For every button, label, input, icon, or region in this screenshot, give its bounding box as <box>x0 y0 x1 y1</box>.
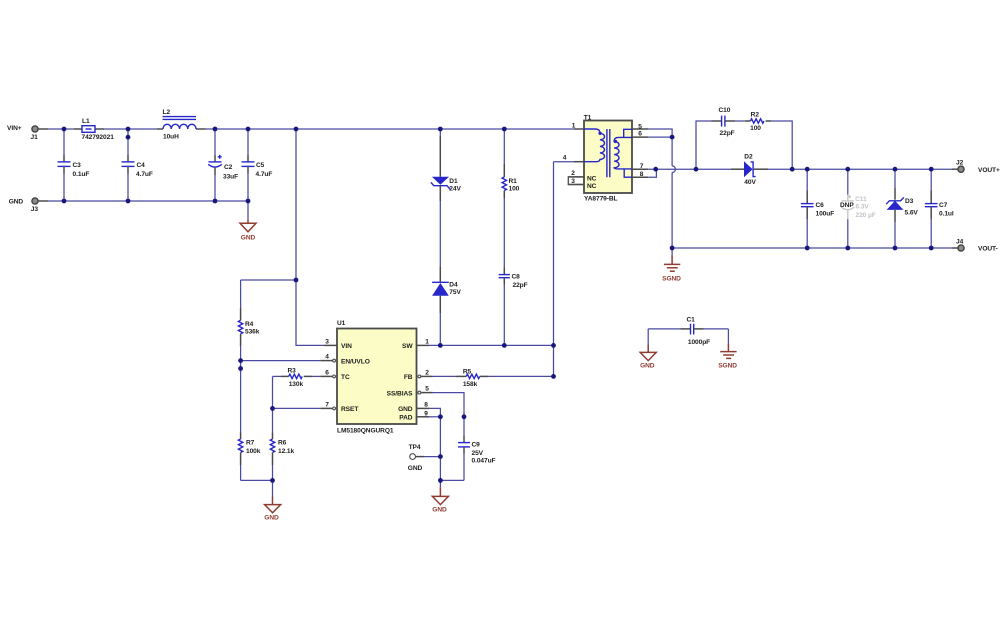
svg-text:1: 1 <box>572 123 576 130</box>
svg-text:10uH: 10uH <box>163 134 179 141</box>
ground GND left of C1 <box>640 329 656 370</box>
T1 pin 5 stub <box>632 124 648 131</box>
wire D1 to D4 <box>439 201 441 267</box>
svg-text:158k: 158k <box>463 381 478 388</box>
pin 8 GND stub <box>417 402 430 409</box>
wire T1 pin4 vertical <box>553 162 555 377</box>
terminal J3 GND <box>9 198 48 213</box>
svg-text:C11: C11 <box>855 196 867 203</box>
pin 6 TC stub <box>320 370 335 378</box>
junction dots input gnd rail <box>62 199 251 204</box>
wire L1 to L2 <box>104 128 157 130</box>
svg-text:220 µF: 220 µF <box>856 212 876 219</box>
wire C10 R2 top branch <box>696 121 792 169</box>
inductor L2 10uH <box>157 109 206 141</box>
svg-text:100uF: 100uF <box>816 210 835 217</box>
T1 pin 7 stub <box>632 163 648 170</box>
terminal J1 VIN+ <box>7 125 48 141</box>
svg-text:NC: NC <box>587 183 597 190</box>
T1 pin 1 stub <box>572 123 584 130</box>
svg-text:R5: R5 <box>463 368 472 375</box>
svg-text:GND: GND <box>432 506 447 513</box>
pin 7 RSET stub <box>320 402 335 410</box>
svg-text:SS/BIAS: SS/BIAS <box>387 390 414 397</box>
resistor R2 100 <box>745 112 771 132</box>
svg-text:0.1ul: 0.1ul <box>939 210 954 217</box>
wire C9 bottom to GND junction <box>440 479 464 481</box>
svg-text:742792021: 742792021 <box>82 134 115 141</box>
svg-text:C2: C2 <box>224 164 233 171</box>
svg-text:SW: SW <box>402 343 413 350</box>
svg-text:22pF: 22pF <box>720 130 735 137</box>
wire R4 top branch <box>241 279 296 281</box>
capacitor C3 0.1uF <box>58 129 90 201</box>
svg-text:R3: R3 <box>288 367 297 374</box>
wire SS/BIAS to C9 <box>433 393 465 436</box>
svg-text:RSET: RSET <box>341 406 358 413</box>
svg-text:GND: GND <box>640 363 655 370</box>
svg-text:LM5180QNGURQ1: LM5180QNGURQ1 <box>337 427 394 434</box>
T1 pin 4 stub <box>563 155 584 162</box>
wire SW rail U1 to T1 pin4 drop <box>429 344 554 346</box>
svg-text:C6: C6 <box>816 202 825 209</box>
svg-text:C4: C4 <box>137 162 146 169</box>
svg-text:4.7uF: 4.7uF <box>256 171 273 178</box>
T1 secondary winding <box>614 129 632 177</box>
svg-text:R4: R4 <box>245 321 254 328</box>
pin 4 EN/UVLO stub <box>320 354 335 362</box>
svg-text:4.7uF: 4.7uF <box>136 171 153 178</box>
svg-text:5: 5 <box>425 386 429 393</box>
svg-text:6: 6 <box>638 131 642 138</box>
svg-text:R2: R2 <box>751 112 760 119</box>
svg-text:C5: C5 <box>256 162 265 169</box>
svg-text:C10: C10 <box>718 107 730 114</box>
svg-text:7: 7 <box>325 402 329 409</box>
wire T1 pin6 <box>648 136 672 138</box>
wire VIN+ rail L2 to T1 pin1 <box>206 128 575 130</box>
svg-text:R1: R1 <box>509 178 518 185</box>
pin 9 PAD stub <box>417 410 430 417</box>
svg-text:VIN: VIN <box>341 343 352 350</box>
resistor R1 100 <box>502 129 520 268</box>
svg-text:33uF: 33uF <box>223 174 238 181</box>
svg-text:9: 9 <box>424 410 428 417</box>
capacitor C2 33uF polarized <box>208 129 238 201</box>
svg-text:SGND: SGND <box>718 363 737 370</box>
ground SGND right of C1 <box>718 329 737 370</box>
wire secondary vertical with hop to SGND rail <box>672 137 675 248</box>
wire GND input rail <box>48 200 248 202</box>
svg-text:5.6V: 5.6V <box>905 210 919 217</box>
svg-text:EN/UVLO: EN/UVLO <box>341 358 370 365</box>
test point TP4 <box>408 444 441 472</box>
junction dots U1 ground net <box>438 414 466 482</box>
wire U1 ground vertical <box>439 417 441 487</box>
svg-text:GND: GND <box>408 465 423 472</box>
transformer T1 YA8779-BL body <box>584 115 632 203</box>
svg-text:C7: C7 <box>939 202 948 209</box>
wire EN/UVLO <box>241 360 321 362</box>
svg-text:GND: GND <box>264 515 279 522</box>
capacitor C7 0.1uF <box>925 169 954 248</box>
svg-text:J1: J1 <box>31 134 39 141</box>
svg-text:5: 5 <box>638 124 642 131</box>
svg-text:8: 8 <box>640 171 644 178</box>
svg-text:L1: L1 <box>82 118 90 125</box>
svg-text:22pF: 22pF <box>513 282 528 289</box>
svg-text:100: 100 <box>750 125 761 132</box>
svg-text:R7: R7 <box>246 440 255 447</box>
svg-text:GND: GND <box>241 235 256 242</box>
svg-text:YA8779-BL: YA8779-BL <box>584 195 618 202</box>
svg-text:100k: 100k <box>246 448 261 455</box>
svg-text:VOUT+: VOUT+ <box>978 167 1000 174</box>
svg-text:L2: L2 <box>163 109 171 116</box>
wire RSET <box>273 407 321 409</box>
ground GND below R6 <box>264 480 280 521</box>
junction dots output rails <box>670 167 934 251</box>
capacitor C6 100uF <box>801 169 834 248</box>
capacitor C5 4.7uF <box>242 129 273 201</box>
T1 pin 8 stub <box>632 171 648 178</box>
svg-text:D1: D1 <box>449 178 458 185</box>
pin 3 VIN stub <box>324 339 337 346</box>
svg-text:D2: D2 <box>744 154 753 161</box>
wire T1 pin8 up to pin7 junction <box>648 169 656 177</box>
junction dots secondary <box>653 135 794 172</box>
diode D2 40V schottky <box>731 154 768 186</box>
svg-text:0.1uF: 0.1uF <box>73 171 90 178</box>
svg-text:TC: TC <box>341 374 350 381</box>
pin 5 SS/BIAS stub <box>418 386 433 394</box>
op-amp U1 LM5180QNGURQ1 body <box>337 320 417 434</box>
junction dots left bias network <box>238 278 298 483</box>
T1 primary winding <box>584 129 605 162</box>
svg-text:U1: U1 <box>337 320 346 327</box>
capacitor C1 1000pF <box>648 317 728 346</box>
wire PAD pin <box>429 416 440 418</box>
svg-text:1: 1 <box>425 339 429 346</box>
T1 pins 2 3 NC tie <box>568 170 596 190</box>
svg-text:25V: 25V <box>472 450 484 457</box>
ground GND under C5 <box>240 201 256 242</box>
svg-text:6.3V: 6.3V <box>856 203 870 210</box>
wire T1 pin4 horizontal <box>554 161 575 163</box>
T1 pin 6 stub <box>632 131 648 138</box>
svg-text:6: 6 <box>325 370 329 377</box>
svg-text:3: 3 <box>571 178 575 185</box>
svg-text:75V: 75V <box>449 289 461 296</box>
zener D1 24V <box>431 129 462 201</box>
terminal J4 VOUT- <box>952 239 998 253</box>
svg-text:GND: GND <box>9 199 24 206</box>
svg-text:12.1k: 12.1k <box>278 448 295 455</box>
svg-text:D4: D4 <box>449 282 458 289</box>
svg-text:0.047uF: 0.047uF <box>472 458 496 465</box>
wire VIN+ rail J1 to L1 <box>48 128 74 130</box>
svg-text:TP4: TP4 <box>409 444 421 451</box>
capacitor C8 22pF <box>499 268 528 346</box>
wire T1 pin5 to pin6 junction <box>648 129 672 137</box>
ferrite bead L1 742792021 <box>74 118 114 141</box>
svg-text:VIN+: VIN+ <box>7 125 22 132</box>
capacitor C9 0.047uF <box>458 436 496 481</box>
wire VIN vertical feed to U1 <box>296 129 324 345</box>
junction dots SW and FB <box>438 343 556 379</box>
junction dots top rail <box>62 127 507 140</box>
svg-text:130k: 130k <box>289 381 304 388</box>
svg-text:C9: C9 <box>472 442 481 449</box>
wire D2 to VOUT+ terminal <box>768 168 952 170</box>
svg-text:8: 8 <box>424 402 428 409</box>
svg-text:SGND: SGND <box>662 275 681 282</box>
zener D4 75V <box>432 267 461 345</box>
svg-text:24V: 24V <box>449 186 461 193</box>
svg-text:D3: D3 <box>905 198 914 205</box>
capacitor C11 220uF DNP ghost <box>840 169 876 248</box>
svg-text:4: 4 <box>563 155 567 162</box>
svg-text:DNP: DNP <box>840 202 854 209</box>
terminal J2 VOUT+ <box>952 160 1000 174</box>
ground GND below U1 <box>432 487 448 513</box>
svg-text:3: 3 <box>325 339 329 346</box>
resistor R5 158k <box>433 368 554 388</box>
zener D3 5.6V <box>886 169 918 248</box>
wire R3 left drop to RSET <box>272 376 274 408</box>
svg-text:J3: J3 <box>31 206 39 213</box>
svg-text:J4: J4 <box>956 239 964 246</box>
svg-text:C3: C3 <box>73 162 82 169</box>
svg-text:R6: R6 <box>278 440 287 447</box>
svg-text:NC: NC <box>587 176 597 183</box>
resistor R7 100k <box>238 433 260 481</box>
resistor R4 536k <box>238 280 259 433</box>
svg-text:536k: 536k <box>245 329 260 336</box>
ground SGND below transformer <box>662 248 681 282</box>
svg-text:PAD: PAD <box>399 414 413 421</box>
resistor R6 12.1k <box>270 408 294 480</box>
svg-text:T1: T1 <box>584 115 592 122</box>
svg-text:4: 4 <box>325 354 329 361</box>
svg-text:FB: FB <box>404 374 413 381</box>
capacitor C4 4.7uF <box>122 129 153 201</box>
svg-text:2: 2 <box>571 170 575 177</box>
svg-text:2: 2 <box>425 370 429 377</box>
svg-text:C1: C1 <box>686 317 695 324</box>
svg-text:C8: C8 <box>512 274 521 281</box>
wire T1 pin7 to D2 <box>648 168 731 170</box>
wire GND pin drop <box>429 408 440 416</box>
resistor R3 130k <box>273 367 321 388</box>
svg-text:GND: GND <box>398 406 413 413</box>
pin 1 SW stub <box>417 339 430 346</box>
svg-text:VOUT-: VOUT- <box>978 246 998 253</box>
svg-text:100: 100 <box>509 186 520 193</box>
svg-text:1000pF: 1000pF <box>688 339 710 346</box>
svg-text:J2: J2 <box>956 160 964 167</box>
wire R7 bottom to GND junction <box>241 479 273 481</box>
capacitor C10 22pF <box>712 107 736 137</box>
svg-text:7: 7 <box>640 163 644 170</box>
T1 core <box>607 129 610 177</box>
wire VOUT- bottom rail <box>672 247 952 249</box>
pin 2 FB stub <box>418 370 433 378</box>
svg-text:40V: 40V <box>744 179 756 186</box>
